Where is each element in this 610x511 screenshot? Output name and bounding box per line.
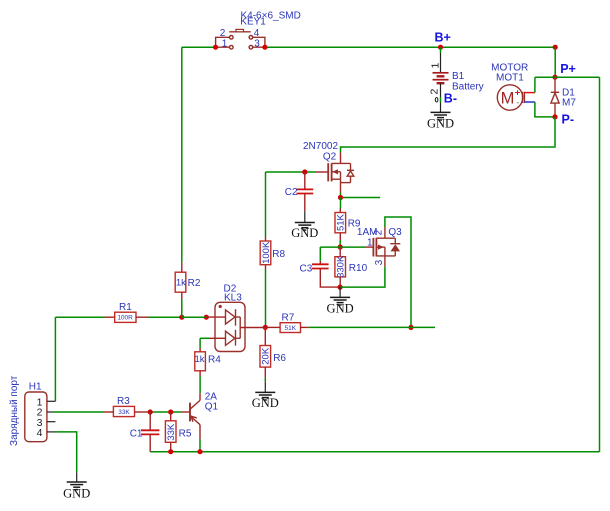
wire R1 row left	[55, 316, 104, 318]
svg-text:51K: 51K	[336, 213, 347, 231]
battery B1	[433, 47, 449, 112]
svg-text:R8: R8	[272, 249, 285, 260]
svg-text:1: 1	[430, 63, 442, 69]
svg-text:M: M	[501, 89, 515, 107]
wire R1 to left junction	[149, 316, 182, 318]
svg-text:2: 2	[429, 89, 441, 95]
svg-text:1: 1	[222, 38, 228, 49]
mosfet Q2	[316, 153, 355, 193]
svg-text:MOT1: MOT1	[496, 72, 524, 83]
mosfet Q3	[366, 227, 401, 267]
svg-text:B+: B+	[435, 31, 451, 45]
svg-text:B1: B1	[452, 71, 465, 82]
svg-text:Q2: Q2	[323, 152, 337, 163]
svg-text:R6: R6	[273, 353, 286, 364]
ground H1	[63, 472, 90, 500]
wire R8 down to R7 junction	[265, 269, 267, 327]
svg-text:GND: GND	[327, 302, 354, 316]
wire R2 to junction	[181, 299, 183, 317]
svg-text:P-: P-	[562, 113, 575, 127]
svg-text:C1: C1	[130, 429, 143, 440]
connector H1	[25, 392, 56, 442]
svg-text:KL3: KL3	[224, 293, 242, 304]
svg-text:C3: C3	[300, 264, 313, 275]
pushbutton KEY1	[216, 29, 265, 49]
ground C3 R10	[327, 287, 354, 316]
resistor R3	[113, 406, 150, 416]
svg-text:Q3: Q3	[388, 227, 402, 238]
svg-text:R10: R10	[349, 263, 368, 274]
resistor R5	[165, 412, 177, 452]
svg-text:R1: R1	[119, 302, 132, 313]
svg-text:1: 1	[367, 237, 373, 248]
junction R1 row left	[179, 315, 184, 320]
wire pin1 vertical	[54, 317, 56, 401]
wire left vertical from key to R2	[181, 47, 183, 262]
svg-text:P+: P+	[560, 62, 576, 76]
svg-text:100K: 100K	[261, 241, 272, 264]
junction top right corner	[553, 45, 558, 50]
junction R7 row	[263, 325, 268, 330]
junction B+	[438, 45, 443, 50]
svg-text:1k: 1k	[194, 354, 204, 365]
junction R5 bottom	[168, 449, 173, 454]
junction base row C1	[148, 409, 153, 414]
wire D2 lower to R4	[199, 338, 201, 348]
junction R9 bottom	[338, 244, 343, 249]
svg-text:4: 4	[254, 28, 260, 39]
resistor R4	[194, 348, 205, 376]
svg-text:C2: C2	[285, 187, 298, 198]
svg-text:R2: R2	[188, 278, 201, 289]
wire Q3 gate row	[320, 246, 365, 248]
wire R9 to junction	[339, 240, 341, 247]
svg-text:KEY1: KEY1	[240, 17, 266, 28]
wire D2 lower input	[200, 337, 210, 339]
wire bottom row	[150, 451, 599, 453]
junction Q3 drain to R7 row	[408, 325, 413, 330]
wire R8 column	[265, 172, 267, 237]
junction key right	[262, 45, 267, 50]
capacitor C1	[141, 412, 159, 452]
junction R1 row right	[204, 315, 209, 320]
resistor R8	[260, 237, 272, 269]
wire R1 junction link	[182, 316, 207, 318]
resistor R9	[335, 209, 347, 241]
junction Q2 source	[338, 195, 343, 200]
wire C3 branch down	[319, 247, 321, 261]
svg-text:M7: M7	[562, 98, 576, 109]
junction base row R5	[168, 409, 173, 414]
resistor R2	[175, 262, 186, 299]
svg-text:2: 2	[373, 229, 384, 235]
svg-text:R3: R3	[117, 396, 130, 407]
wire top B+ right segment	[265, 46, 555, 48]
svg-text:R7: R7	[282, 312, 295, 323]
svg-text:+: +	[515, 87, 521, 98]
wire motor plus to P+	[534, 77, 536, 92]
capacitor C3	[312, 261, 340, 287]
resistor R10	[335, 247, 347, 287]
svg-text:33K: 33K	[166, 423, 177, 441]
pin R3 left	[104, 411, 113, 413]
svg-text:H1: H1	[29, 382, 42, 393]
wire P- to Q2 drain	[341, 117, 556, 153]
svg-text:Q1: Q1	[205, 402, 219, 413]
ground C2	[291, 211, 318, 240]
wire Q1 emitter down	[199, 439, 201, 452]
wire top B+ left segment	[182, 46, 216, 48]
svg-text:51K: 51K	[285, 325, 297, 332]
svg-text:330K: 330K	[336, 255, 347, 278]
svg-text:2N7002: 2N7002	[303, 141, 338, 152]
ground R6	[252, 377, 279, 410]
svg-text:3: 3	[254, 38, 260, 49]
svg-text:R4: R4	[208, 354, 221, 365]
wire R4 to Q1 collector	[199, 376, 201, 393]
motor MOT1	[497, 85, 535, 110]
wire base row green	[150, 411, 181, 413]
ground battery	[427, 112, 454, 130]
svg-text:GND: GND	[63, 487, 90, 501]
svg-text:GND: GND	[427, 117, 454, 131]
svg-text:3: 3	[374, 259, 385, 265]
wire Q2 source down to R9	[340, 198, 342, 209]
resistor R7	[265, 323, 308, 333]
svg-text:100R: 100R	[117, 315, 133, 322]
wire P+ row	[535, 76, 600, 78]
wire bottom row to Q3 source	[340, 267, 385, 287]
svg-text:20K: 20K	[261, 347, 272, 365]
junction C3 R10 bottom	[338, 285, 343, 290]
svg-text:2: 2	[220, 28, 226, 39]
wire H1 pin4 to ground	[55, 432, 77, 473]
junction C2 top	[302, 169, 307, 174]
svg-text:4: 4	[37, 427, 43, 439]
pin R1 left	[105, 316, 115, 318]
dual LED D2	[210, 302, 265, 351]
wire Q2 gate row	[266, 171, 316, 173]
wire B+ down to P+	[554, 47, 556, 77]
junction Q1 emitter	[197, 449, 202, 454]
svg-text:-: -	[517, 98, 520, 107]
resistor R1	[115, 312, 149, 322]
transistor Q1	[181, 393, 200, 439]
wire Q2 source stub	[341, 193, 381, 198]
wire motor minus to P-	[535, 102, 555, 117]
wire H1 pin2 to R3	[54, 411, 105, 413]
wire R7 right stub	[309, 326, 435, 328]
junction P-	[552, 114, 557, 119]
svg-text:GND: GND	[252, 396, 279, 410]
capacitor C2	[297, 172, 314, 211]
wire junction to D2	[206, 316, 225, 318]
junction P+	[552, 75, 557, 80]
svg-text:33K: 33K	[118, 409, 130, 416]
svg-text:B-: B-	[444, 92, 457, 106]
svg-text:R5: R5	[179, 429, 192, 440]
resistor R6	[260, 327, 272, 377]
svg-text:1k: 1k	[176, 278, 186, 289]
svg-text:GND: GND	[291, 226, 318, 240]
junction key left	[213, 45, 218, 50]
svg-text:Зарядный порт: Зарядный порт	[9, 375, 20, 446]
wire Q3 drain up and right	[385, 217, 411, 327]
wire right vertical	[599, 77, 601, 452]
diode D1	[551, 77, 559, 117]
